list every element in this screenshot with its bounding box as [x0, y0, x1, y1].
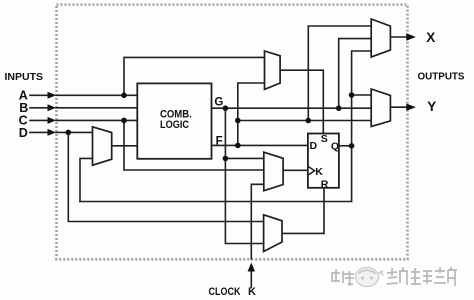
wire D to mux M1	[56, 131, 93, 133]
svg-text:K: K	[248, 286, 256, 298]
junction G chain lower	[223, 156, 229, 162]
svg-text:INPUTS: INPUTS	[5, 71, 44, 83]
junction on node F	[235, 143, 241, 149]
wire node G output	[212, 107, 372, 109]
wire A tap vertical	[124, 57, 265, 95]
wire D tap down	[68, 132, 263, 221]
svg-text:K: K	[315, 166, 323, 178]
mux M2	[265, 51, 281, 89]
svg-text:X: X	[426, 30, 435, 45]
arrowhead input C	[48, 117, 57, 124]
svg-text:Y: Y	[427, 99, 436, 114]
junction F to M5	[306, 118, 312, 124]
junction Q to M6	[349, 92, 355, 98]
wire feedback into M1	[80, 158, 93, 201]
wire Q output	[339, 145, 352, 147]
wire Q feedback loop	[80, 146, 352, 202]
svg-text:F: F	[216, 135, 223, 147]
junction on node A	[121, 93, 127, 99]
svg-text:OUTPUTS: OUTPUTS	[418, 70, 465, 82]
wire X output	[390, 36, 406, 38]
wire A to COMB	[56, 94, 137, 96]
junction on node C	[121, 118, 127, 124]
wire G branch up to M5	[339, 39, 372, 109]
junction node G	[223, 105, 229, 111]
wire Q up to M5 and M6	[352, 51, 372, 95]
svg-text:R: R	[321, 179, 329, 191]
arrowhead output X	[406, 33, 416, 40]
wire M2 output to FF S pin	[280, 70, 323, 133]
input stub B	[30, 107, 49, 109]
wire Y output	[390, 106, 406, 108]
arrowhead input B	[48, 104, 57, 111]
svg-text:CLOCK: CLOCK	[209, 286, 241, 298]
svg-text:S: S	[321, 133, 328, 145]
wire C tap down to M3	[124, 120, 264, 170]
junction G to M5	[336, 105, 342, 111]
wire B to COMB	[56, 107, 137, 109]
wire node F output to FF D pin	[212, 144, 308, 146]
junction F chain	[235, 118, 241, 124]
svg-text:G: G	[214, 97, 223, 109]
wire Q vertical mid	[351, 95, 353, 146]
arrowhead clock	[248, 263, 255, 272]
arrowhead output Y	[406, 104, 416, 111]
watermark logo	[356, 268, 379, 287]
input stub A	[30, 94, 49, 96]
watermark zhihu	[331, 267, 457, 287]
flip-flop U2	[308, 134, 339, 188]
wire M3 output to FF K pin	[283, 169, 308, 171]
wire clock external	[250, 268, 252, 288]
junction on node Q	[349, 143, 355, 149]
arrowhead input A	[48, 92, 57, 99]
mux M4	[264, 215, 282, 252]
junction on node D	[66, 130, 72, 136]
wire F branch up to M5	[308, 26, 371, 121]
mux M3 clock select	[264, 152, 283, 191]
wire G chain down	[225, 108, 263, 243]
wire G chain to M3	[225, 157, 263, 159]
wire F chain up to M2	[238, 83, 265, 145]
chip boundary (dashed border)	[57, 5, 408, 260]
input stub D	[30, 131, 49, 133]
flip-flop U2 clock wedge	[308, 166, 315, 175]
mux M6 output Y	[371, 89, 390, 127]
mux M1 input select	[93, 127, 112, 165]
svg-text:Q: Q	[331, 141, 339, 153]
mux M5 output X	[371, 19, 390, 57]
wire clock to M3	[251, 184, 263, 259]
svg-text:D: D	[19, 126, 28, 140]
wire C to COMB	[56, 119, 137, 121]
svg-text:D: D	[310, 140, 318, 152]
wire M4 output to FF R pin	[282, 188, 324, 234]
wire M1 output to COMB	[112, 145, 138, 147]
input stub C	[30, 119, 49, 121]
wire F chain to M6	[238, 120, 371, 122]
comb logic block U1	[137, 83, 211, 158]
svg-text:LOGIC: LOGIC	[160, 119, 189, 131]
arrowhead input D	[48, 129, 57, 136]
